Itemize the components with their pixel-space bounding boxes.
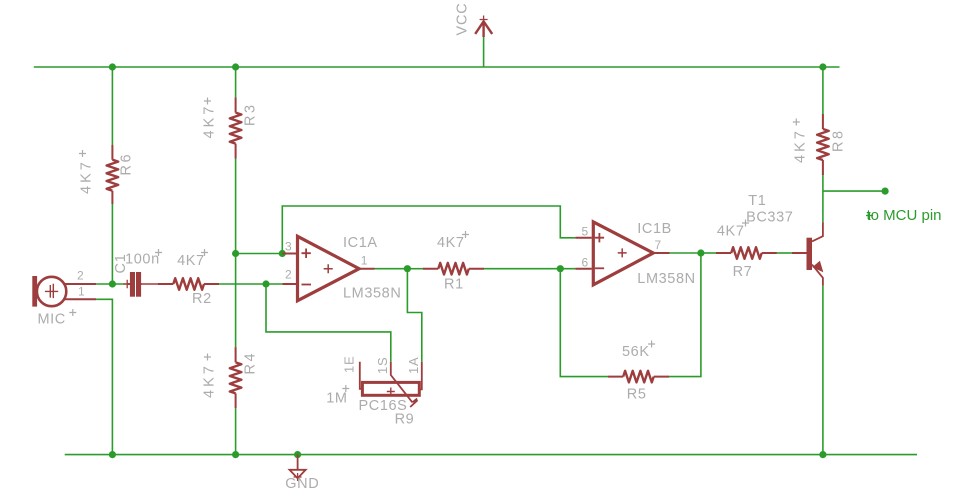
resistor R5	[608, 371, 669, 383]
svg-text:1S: 1S	[375, 356, 390, 374]
wire rail to R8	[822, 67, 824, 114]
pin number 1 (MIC)	[78, 285, 85, 299]
wire output junction to R7	[701, 252, 716, 254]
pin number 7 (IC1B out)	[655, 238, 662, 252]
label R7 name	[733, 264, 753, 280]
wire mic pin1 to bottom rail	[96, 299, 112, 454]
label R9 value origin cross	[342, 385, 349, 392]
label IC1A name	[343, 235, 378, 251]
svg-text:R9: R9	[395, 412, 415, 428]
supply VCC origin cross	[480, 16, 488, 24]
wire collector branch to MCU	[823, 190, 885, 192]
potentiometer R9 origin cross	[387, 388, 395, 396]
wire R6 bottom to mic pin2 node	[111, 204, 113, 284]
pin number 6 (IC1B -)	[582, 256, 589, 270]
svg-text:7: 7	[655, 238, 662, 252]
svg-text:R5: R5	[627, 387, 647, 403]
op-amp IC1B origin cross	[618, 248, 627, 257]
label R1 value origin cross	[462, 231, 469, 238]
svg-text:R2: R2	[192, 291, 212, 307]
svg-text:2: 2	[285, 268, 292, 282]
node junction bottom rail / mic column	[109, 451, 116, 458]
label R4 value 4K7	[202, 363, 218, 398]
capacitor C1 origin cross	[123, 280, 131, 288]
label R2 value origin cross	[201, 249, 208, 256]
label C1 name	[113, 253, 129, 273]
label IC1A value LM358N	[343, 286, 401, 302]
label MIC text origin cross	[69, 309, 76, 316]
svg-text:R3: R3	[243, 102, 259, 126]
svg-text:4K7: 4K7	[437, 235, 465, 251]
op-amp IC1A origin cross	[324, 264, 333, 273]
resistor R6	[107, 145, 119, 204]
resistor R7	[716, 247, 777, 259]
wire VCC stub	[483, 37, 485, 67]
label MIC name	[38, 312, 66, 328]
label C1 value 100n	[125, 252, 160, 268]
svg-text:MIC: MIC	[38, 312, 66, 328]
svg-text:LM358N: LM358N	[343, 286, 401, 302]
label R8 value 4K7	[793, 128, 809, 163]
label R9 package PC16S	[359, 398, 408, 414]
label R7 value origin cross	[742, 220, 749, 227]
label R2 name	[192, 291, 212, 307]
node junction mic pin2 / R6 / C1	[109, 280, 116, 287]
wire R3 to pin3 node	[235, 159, 237, 254]
label R9 value 1M	[326, 390, 347, 406]
label R8 value origin cross	[793, 119, 800, 126]
microphone MIC	[32, 276, 96, 307]
wire R7 to T1 base	[777, 252, 792, 254]
wire R5 feedback left leg	[560, 269, 608, 377]
svg-text:2: 2	[77, 269, 84, 283]
svg-text:6: 6	[582, 256, 589, 270]
op-amp IC1B minus input marker	[595, 267, 604, 269]
svg-text:LM358N: LM358N	[637, 271, 695, 287]
svg-text:GND: GND	[285, 476, 319, 491]
wire pin2 to pot wiper 1S	[266, 284, 391, 362]
pin number 2 (MIC)	[77, 269, 84, 283]
wire pin3 row	[236, 253, 283, 255]
wire R2 to IC1A pin2	[219, 283, 282, 285]
svg-text:IC1A: IC1A	[343, 235, 378, 251]
wire left column top (rail to R6)	[111, 67, 113, 145]
svg-text:100n: 100n	[125, 252, 160, 268]
wire bias feed up-over to IC1B pin5	[282, 206, 575, 254]
op-amp IC1A plus input marker	[302, 249, 311, 259]
wire R8 to collector	[822, 175, 824, 222]
wire IC1B output net	[670, 252, 701, 254]
svg-text:4K7: 4K7	[717, 224, 745, 240]
node junction IC1B output / R5	[697, 249, 704, 256]
node junction bottom rail / emitter	[819, 451, 826, 458]
net label origin cross (to MCU pin)	[866, 212, 873, 219]
label T1 name	[748, 193, 766, 209]
node junction pin3 / bias feed	[279, 250, 286, 257]
op-amp IC1A minus input marker	[302, 284, 312, 286]
wire output to R1	[407, 268, 423, 270]
capacitor C1	[127, 272, 141, 297]
resistor R8	[817, 114, 829, 175]
label R4 name	[243, 351, 259, 375]
label R1 value 4K7	[437, 235, 465, 251]
svg-text:1: 1	[361, 254, 368, 268]
wire R4 to bottom rail	[235, 408, 237, 455]
svg-text:to MCU pin: to MCU pin	[867, 207, 942, 224]
op-amp IC1B plus input marker	[595, 233, 604, 242]
svg-text:56K: 56K	[622, 344, 650, 360]
label R3 value 4K7	[202, 104, 218, 139]
ground GND symbol	[290, 455, 306, 479]
net label to MCU pin	[867, 207, 942, 224]
wire bottom GND rail	[65, 454, 917, 456]
pin number 3 (IC1A +)	[285, 240, 292, 254]
svg-text:R1: R1	[444, 277, 464, 293]
node junction bottom rail / GND stub	[294, 451, 301, 458]
svg-text:IC1B: IC1B	[637, 221, 672, 237]
label R3 value origin cross	[204, 98, 211, 105]
svg-text:R4: R4	[243, 351, 259, 375]
resistor R3	[230, 97, 242, 158]
resistor R4	[230, 347, 242, 408]
wire IC1A output net	[375, 268, 408, 270]
svg-text:R6: R6	[119, 152, 135, 176]
label T1 value BC337	[746, 210, 793, 226]
label R4 value origin cross	[204, 354, 211, 361]
svg-text:3: 3	[285, 240, 292, 254]
pin label 1E (R9)	[342, 355, 357, 373]
svg-text:1M: 1M	[326, 390, 347, 406]
pin label 1S (R9)	[375, 356, 390, 374]
wire output to pot pin1A	[407, 269, 421, 362]
wire R5 feedback right leg	[669, 253, 701, 377]
node junction bottom rail / R4 column	[232, 451, 239, 458]
label R7 value 4K7	[717, 224, 745, 240]
label R6 value origin cross	[79, 150, 86, 157]
svg-text:4K7: 4K7	[79, 159, 95, 194]
svg-text:4K7: 4K7	[177, 253, 205, 269]
node junction pin2 / pot wiper net	[262, 280, 269, 287]
svg-text:T1: T1	[748, 193, 766, 209]
svg-text:1E: 1E	[342, 355, 357, 373]
label R9 name	[395, 412, 415, 428]
svg-text:BC337: BC337	[746, 210, 793, 226]
svg-text:R7: R7	[733, 264, 753, 280]
node junction top rail / R8 column	[819, 63, 826, 70]
resistor R1	[423, 263, 484, 275]
pin number 2 (IC1A -)	[285, 268, 292, 282]
node junction bias divider / pin3 wire	[232, 250, 239, 257]
wire top VCC rail	[34, 66, 840, 68]
op-amp IC1A	[282, 236, 374, 300]
wire divider to R4	[235, 254, 237, 348]
pin label 1A (R9)	[406, 356, 421, 374]
transistor T1 BC337	[792, 222, 824, 285]
node junction pin6 / R5 feedback	[557, 265, 564, 272]
node junction top rail / R3 column	[232, 63, 239, 70]
svg-text:1A: 1A	[406, 356, 421, 374]
op-amp IC1B	[575, 222, 669, 285]
pin number 1 (IC1A out)	[361, 254, 368, 268]
wire mic pin2 net	[96, 283, 127, 285]
wire C1-R2 pin segment	[142, 283, 159, 285]
potentiometer R9 PC16S	[360, 362, 422, 407]
node net stub to MCU pin	[882, 188, 889, 195]
wire emitter to bottom rail	[822, 286, 824, 455]
svg-text:4K7: 4K7	[202, 363, 218, 398]
ground GND origin cross	[294, 473, 302, 481]
label R6 value 4K7	[79, 159, 95, 194]
svg-text:R8: R8	[831, 128, 847, 152]
node junction top rail / R6 column	[109, 63, 116, 70]
svg-text:5: 5	[582, 225, 589, 239]
wire R1 to IC1B pin6	[484, 268, 575, 270]
label R3 name	[243, 102, 259, 126]
label R5 name	[627, 387, 647, 403]
svg-text:4K7: 4K7	[793, 128, 809, 163]
label VCC	[455, 2, 471, 35]
label IC1B name	[637, 221, 672, 237]
supply VCC symbol	[475, 21, 492, 37]
svg-text:VCC: VCC	[455, 2, 471, 35]
label R1 name	[444, 277, 464, 293]
svg-text:4K7: 4K7	[202, 104, 218, 139]
label R8 name	[831, 128, 847, 152]
resistor R2	[158, 278, 219, 290]
node junction IC1A output	[404, 265, 411, 272]
label IC1B value LM358N	[637, 271, 695, 287]
label C1 value origin cross	[155, 249, 162, 256]
label GND	[285, 476, 319, 491]
label R6 name	[119, 152, 135, 176]
label R2 value 4K7	[177, 253, 205, 269]
label R5 value origin cross	[648, 341, 655, 348]
pin number 5 (IC1B +)	[582, 225, 589, 239]
label R5 value 56K	[622, 344, 650, 360]
svg-text:1: 1	[78, 285, 85, 299]
wire R3 column top	[235, 67, 237, 97]
